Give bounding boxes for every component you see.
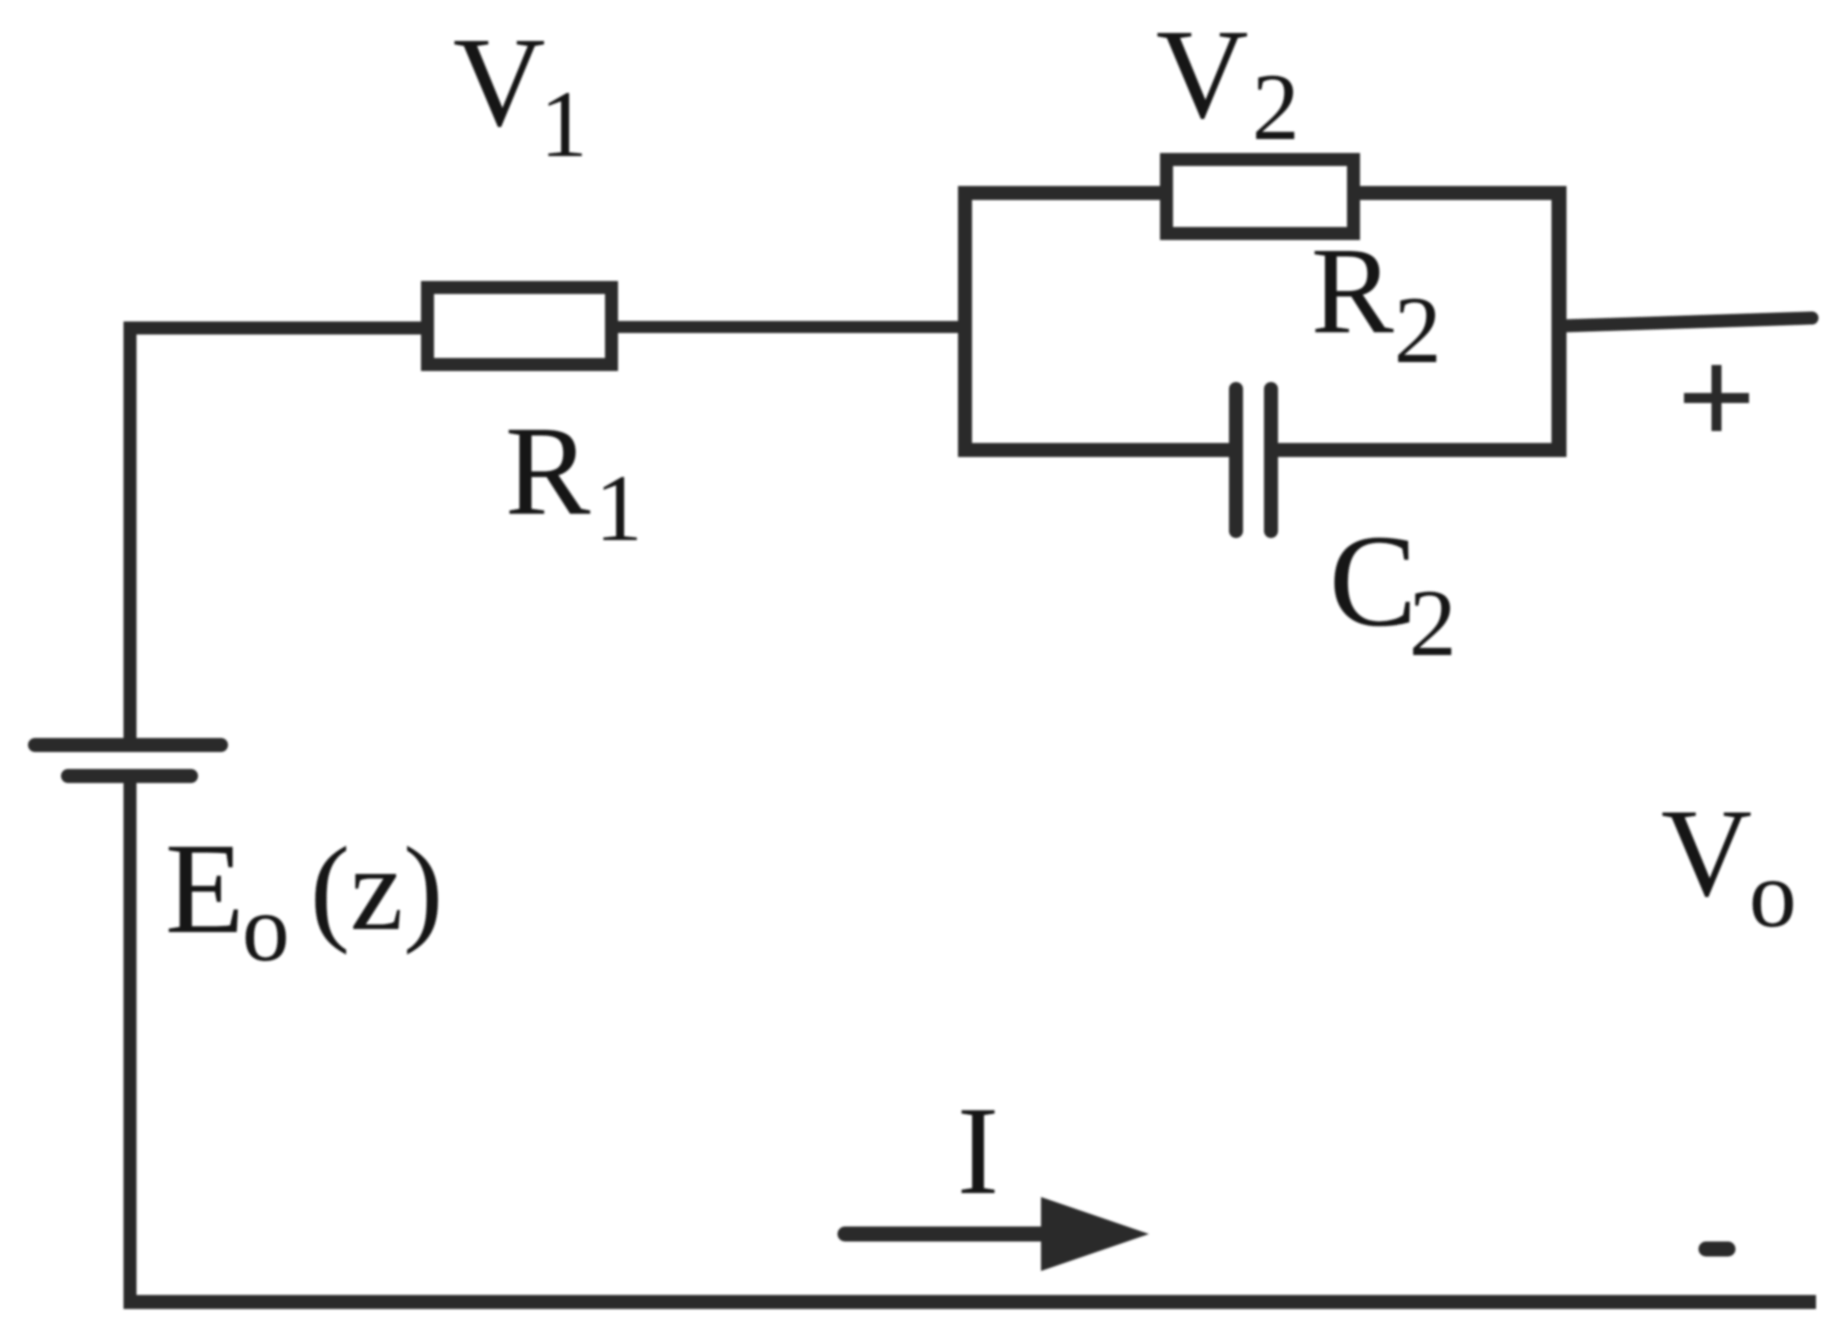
svg-text:1: 1 xyxy=(540,71,588,177)
capacitor C2 left plate xyxy=(1229,389,1243,531)
battery E0 short plate xyxy=(68,769,191,783)
svg-text:R: R xyxy=(505,400,591,542)
node: parallel network left vertical xyxy=(958,186,972,457)
wire: output to plus terminal xyxy=(1560,318,1812,326)
wire: top branch right segment xyxy=(1352,186,1565,200)
wire: left vertical upper (source to top wire) xyxy=(124,322,137,747)
capacitor C2 right plate xyxy=(1264,389,1278,531)
minus sign xyxy=(1706,1242,1728,1257)
wire: bottom return xyxy=(124,1295,1817,1309)
svg-text:1: 1 xyxy=(595,455,643,561)
wire: bottom branch right segment xyxy=(1271,443,1566,457)
wire: R1 to parallel network xyxy=(613,321,970,333)
resistor R2 xyxy=(1167,160,1354,234)
svg-text:V: V xyxy=(453,11,545,153)
svg-text:o: o xyxy=(1749,841,1797,947)
svg-text:(z): (z) xyxy=(310,822,443,955)
resistor R1 xyxy=(428,288,612,365)
wire: bottom branch left segment xyxy=(958,443,1236,457)
svg-text:2: 2 xyxy=(1394,277,1442,383)
wire: left vertical lower (battery to bottom wire) xyxy=(124,775,137,1309)
svg-text:C: C xyxy=(1329,507,1417,654)
current arrow I head xyxy=(1041,1197,1149,1271)
svg-text:R: R xyxy=(1311,222,1394,359)
current arrow I shaft xyxy=(845,1227,1048,1242)
node: parallel network right vertical xyxy=(1552,186,1567,457)
svg-text:V: V xyxy=(1661,784,1752,923)
svg-text:2: 2 xyxy=(1409,570,1457,676)
svg-text:o: o xyxy=(242,875,290,981)
wire: top left horizontal (node to R1) xyxy=(124,322,431,335)
battery E0 long plate xyxy=(35,738,221,752)
plus sign xyxy=(1684,393,1749,403)
svg-text:2: 2 xyxy=(1252,54,1300,160)
svg-text:V: V xyxy=(1156,3,1248,145)
svg-text:E: E xyxy=(165,817,244,961)
svg-text:I: I xyxy=(957,1082,999,1221)
wire: top branch left segment xyxy=(958,186,1168,200)
